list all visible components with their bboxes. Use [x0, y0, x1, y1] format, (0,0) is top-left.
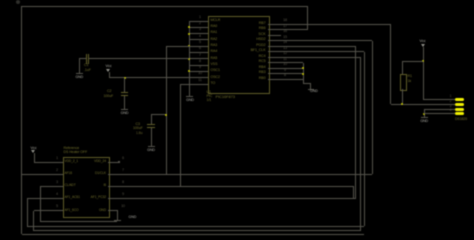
wire connector pin 4	[424, 113, 455, 114]
wire R1 branch horizontal	[402, 61, 423, 62]
U2 left pin 4 AF1_AC61	[53, 198, 63, 199]
wire net E vertical left	[33, 211, 34, 231]
junction on left bus	[188, 45, 190, 47]
junction on left bus	[188, 26, 190, 28]
wire net D vertical left	[27, 198, 28, 226]
U1 left pin 2 RA0	[190, 27, 209, 28]
junction right bus	[302, 73, 304, 75]
U2 left pin 2 AF16	[53, 174, 63, 175]
U2 right pin 9 AF1_PC32	[108, 198, 118, 199]
U1 right pin 16 SCK	[268, 35, 281, 36]
wire DQ vertical right side	[390, 24, 391, 104]
wire: right gnd bus vertical	[303, 63, 304, 84]
C2 labels	[107, 90, 111, 94]
U1 left pin 9 OSC1	[190, 71, 209, 72]
junction Vcc / R1 branch	[422, 60, 424, 62]
note text	[136, 132, 143, 136]
U1 left pin 6 RA4	[190, 52, 209, 53]
wire Vcc to U2 pin 1	[34, 162, 53, 163]
wire W1 left vertical	[21, 6, 22, 234]
wire C1 down leg	[79, 59, 80, 74]
wire net E to U2 pin 5	[34, 210, 54, 211]
IC U2 temperature sensor body	[63, 157, 110, 219]
resistor R1 1k	[400, 74, 407, 91]
junction right bus	[302, 67, 304, 69]
wire R1 bottom lead	[402, 89, 403, 104]
stray mark top left	[16, 0, 20, 4]
U1 left pin 8 VSS	[190, 65, 209, 66]
wire U1 pin 17 to W1 drop	[281, 29, 308, 30]
IC U1 PIC16F873 body	[208, 16, 270, 94]
connector J1 pads	[455, 98, 464, 101]
wire C1 to U1	[89, 58, 190, 59]
U1 right pin 8 RB0	[268, 79, 281, 80]
U2 left pin 3 CL/ADT	[53, 186, 63, 187]
R1 labels	[408, 75, 412, 79]
ground below C2	[121, 109, 128, 110]
wire Vcc to connector pin 1	[423, 99, 455, 100]
U1 left pin 10 OSC2	[190, 77, 209, 78]
wire U2 pin 2 to W1	[22, 174, 54, 175]
connector J1 label	[455, 118, 467, 122]
U1 reference designator and value labels	[207, 91, 211, 95]
junction on left bus	[188, 58, 190, 60]
power Vcc near C2	[102, 64, 116, 68]
ground below C1	[76, 73, 83, 74]
U1 right pin 15 HSD2	[268, 40, 281, 41]
junction on left bus	[188, 33, 190, 35]
wire U2 pin 10 GND drop	[117, 211, 118, 221]
wire V1 from U1 left pin row to net B	[167, 46, 190, 47]
U1 right pin 10 RB4	[268, 68, 281, 69]
U2 right pin 7 D1/CLK	[108, 174, 118, 175]
C1 labels	[84, 64, 88, 68]
wire net E bottom horizontal	[34, 230, 361, 231]
U2 right pin 6 VDD_24	[108, 162, 118, 163]
wire Vcc right vertical	[423, 47, 424, 100]
U2 right pin 10 GND	[108, 210, 118, 211]
U1 right pin 14 PGD2	[268, 46, 281, 47]
wire net D horizontal from U1 pin 13	[281, 51, 365, 52]
U1 right pin 9 RB3	[268, 73, 281, 74]
junction R1 / DQ	[401, 103, 403, 105]
ground below C3	[148, 146, 155, 147]
wire U2 pin 8 long horizontal	[118, 186, 354, 187]
wire Vcc row to U1 pin	[109, 77, 190, 78]
U1 left pin 3 RA1	[190, 33, 209, 34]
junction C3 / V1	[165, 114, 167, 116]
U2 left pin 5 AF1_6CO	[53, 210, 63, 211]
wire V2 from U1 left pin row to U2 pin 8 net	[180, 84, 190, 85]
wire C3 branch	[151, 114, 167, 115]
capacitor C1 .1uF	[79, 58, 86, 59]
wire net C vertical	[355, 46, 356, 198]
wire U2 pin 8 jog down to net C	[353, 186, 354, 198]
wire net C horizontal from U1 pin 14	[281, 46, 356, 47]
U1 left pin 1 MCLR	[190, 21, 209, 22]
U1 right pin 17 RB6	[268, 29, 281, 30]
U2 header labels	[64, 147, 80, 151]
wire net C to U2 pin 9	[118, 198, 356, 199]
capacitor C3 100uF	[151, 115, 152, 125]
wire net D vertical right	[364, 52, 365, 227]
capacitor C2 100uF	[124, 78, 125, 93]
wire DQ from U1 pin 18	[281, 24, 391, 25]
U1 left pin 11 TO	[190, 84, 209, 85]
wire W1 bottom horizontal	[22, 234, 365, 235]
wire W1 drop vertical	[307, 6, 308, 30]
U1 right pin 13 BF1_CLK	[268, 51, 281, 52]
junction on left bus	[188, 70, 190, 72]
U1 right pin 11 RC5	[268, 62, 281, 63]
power Vcc right	[416, 39, 430, 43]
ground symbol below U1 left bus	[186, 96, 193, 97]
U1 right pin 18 RB7	[268, 24, 281, 25]
ground at connector	[421, 117, 428, 118]
U1 left pin 7 RA5	[190, 58, 209, 59]
U2 unconnected pin squares	[118, 161, 120, 163]
wire: U1 left pin bus vertical	[189, 21, 190, 96]
U1 left pin 5 RA3	[190, 46, 209, 47]
wire net D to U2 pin 4	[27, 198, 53, 199]
wire: right bus jog to ground	[303, 83, 311, 84]
wire net B vertical	[372, 41, 373, 175]
ground symbol right of U1	[308, 89, 314, 90]
wire R1 top lead	[402, 61, 403, 74]
junction C2 tap	[124, 77, 126, 79]
wire connector pin 3 to ground	[424, 109, 455, 110]
wire DQ to connector pin 2	[391, 104, 456, 105]
power Vcc at U2 pin 1	[27, 146, 41, 150]
wire net B to U2 pin 7	[118, 174, 373, 175]
U2 left pin 1 VDD_2_1	[53, 162, 63, 163]
wire W1 top horizontal	[22, 6, 308, 7]
wire net E horizontal from U1 pin 12	[281, 57, 361, 58]
junction gnd / connector pin 4	[423, 113, 425, 115]
wire: U1 right pins to gnd bus	[281, 62, 304, 63]
U1 left pin 4 RA2	[190, 39, 209, 40]
U1 right pin 12 RC4	[268, 57, 281, 58]
wire net E vertical right	[360, 57, 361, 231]
ground at U2	[114, 220, 121, 221]
wire net B horizontal from U1 pin 15	[281, 40, 373, 41]
C3 labels	[136, 123, 140, 127]
wire net D bottom horizontal	[27, 226, 364, 227]
wire U2 pin 3 loop down	[40, 186, 53, 187]
U2 right pin 8 I6	[108, 186, 118, 187]
